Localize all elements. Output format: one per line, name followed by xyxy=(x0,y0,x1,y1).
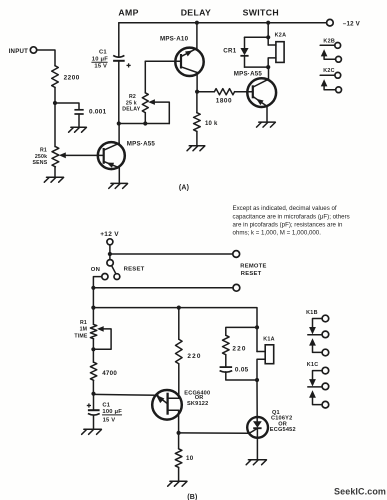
svg-text:MPS·A55: MPS·A55 xyxy=(234,70,263,77)
wire R1 to 4700 xyxy=(92,339,94,362)
resistor 220 snubber xyxy=(223,335,230,354)
SCR Q1 C106Y2 xyxy=(247,417,268,438)
resistor 4700 xyxy=(90,362,96,380)
wire 4700 to node xyxy=(92,380,94,393)
svg-text:1800: 1800 xyxy=(216,97,232,104)
potentiometer R2 25k DELAY xyxy=(144,61,146,93)
capacitor C1 10uF xyxy=(113,55,124,57)
svg-text:220: 220 xyxy=(232,346,246,353)
svg-text:TIME: TIME xyxy=(74,334,88,340)
svg-text:(A): (A) xyxy=(179,184,189,191)
node bus B left xyxy=(91,306,95,310)
wire A10 base xyxy=(145,60,181,62)
wire ON to bus xyxy=(93,277,101,288)
svg-text:4700: 4700 xyxy=(102,370,117,377)
node gate xyxy=(177,431,181,435)
svg-text:1M: 1M xyxy=(80,326,88,332)
ground below 0.001 xyxy=(69,127,87,132)
ground below 10 xyxy=(168,481,187,486)
wire R1 to ground xyxy=(54,167,56,177)
transistor MPS-A55 second (PNP) xyxy=(247,78,276,107)
wire 0.05 to node xyxy=(226,372,257,380)
svg-text:C1: C1 xyxy=(99,50,107,56)
wire R1 wiper to Q base xyxy=(65,154,104,156)
svg-text:ECG5452: ECG5452 xyxy=(270,427,296,433)
wire A55-2 collector up xyxy=(268,67,270,79)
wire node to capacitor 0.001 xyxy=(55,103,79,109)
wire emitter line xyxy=(94,393,159,396)
terminal INPUT xyxy=(30,47,36,53)
svg-text:SENS: SENS xyxy=(32,160,47,166)
capacitor C1 100uF xyxy=(93,394,95,410)
wire bus B xyxy=(93,308,257,328)
wire Q1 emitter to ground xyxy=(118,168,120,183)
resistor 2200 xyxy=(52,66,59,88)
wire CR1 bottom xyxy=(245,66,269,68)
node remote reset top xyxy=(108,252,112,256)
wire gate xyxy=(179,432,249,434)
wire -12V top rail xyxy=(119,22,327,24)
wire input to R 2200 xyxy=(37,50,55,66)
resistor 10 xyxy=(178,433,180,449)
wire node to R2 bottom xyxy=(119,123,170,125)
plus sign C1 100uF xyxy=(87,403,91,407)
wire rail to K2A node xyxy=(267,23,269,45)
svg-text:+12 V: +12 V xyxy=(100,231,119,238)
ground below second MPS-A55 xyxy=(257,122,276,127)
ground below C1 100uF xyxy=(82,429,102,434)
svg-text:Except as indicated, decimal v: Except as indicated, decimal values of xyxy=(233,205,337,212)
node snubber top xyxy=(255,325,259,329)
svg-text:2200: 2200 xyxy=(64,74,80,81)
wire cap to ground xyxy=(78,114,80,127)
terminal remote reset top xyxy=(233,251,240,258)
wire busA to busB xyxy=(92,288,94,308)
potentiometer R1 250k SENS xyxy=(52,147,59,167)
wire CR1 top xyxy=(245,36,269,38)
node emitter/C1 xyxy=(91,392,95,396)
node snubber bottom xyxy=(255,378,259,382)
wire SCR cathode xyxy=(256,428,258,459)
ground below SCR xyxy=(246,460,266,465)
unijunction transistor ECG6400 (UJT) xyxy=(152,390,182,420)
wire remote reset top xyxy=(110,253,233,255)
svg-text:K1A: K1A xyxy=(263,337,275,343)
wire A10 emitter to rail xyxy=(196,23,198,49)
transistor MPS-A10 (NPN) xyxy=(175,48,203,76)
node collector/1800/10k xyxy=(195,90,199,94)
relay coil K1A xyxy=(256,327,258,351)
svg-text:ON: ON xyxy=(91,267,100,273)
svg-text:MPS·A55: MPS·A55 xyxy=(127,141,156,148)
svg-text:K1C: K1C xyxy=(307,362,319,368)
wiper arrow R1 1M xyxy=(97,326,104,332)
switch RESET xyxy=(109,254,111,260)
potentiometer R1 1M TIME xyxy=(92,308,94,325)
node CR1 bottom xyxy=(266,65,270,69)
wire node to potentiometer R1 xyxy=(54,103,56,147)
transistor MPS-A55 first (PNP) xyxy=(98,142,125,169)
svg-text:SK9122: SK9122 xyxy=(187,401,208,407)
wire base-one down xyxy=(178,410,180,433)
svg-text:RESET: RESET xyxy=(124,266,145,272)
ground below 10k xyxy=(187,146,205,151)
diode CR1 xyxy=(244,37,246,48)
svg-text:–12 V: –12 V xyxy=(343,21,361,28)
capacitor 0.001 xyxy=(74,110,83,114)
svg-text:0.05: 0.05 xyxy=(235,366,249,373)
svg-text:220: 220 xyxy=(187,353,201,360)
wire C1 down to node xyxy=(118,61,120,124)
svg-text:REMOTE: REMOTE xyxy=(240,264,266,270)
SCR Q1 anode wire xyxy=(256,380,258,421)
node junction input divider xyxy=(53,101,57,105)
svg-text:10: 10 xyxy=(186,455,194,462)
capacitor 0.05 xyxy=(220,366,233,368)
svg-text:K2B: K2B xyxy=(323,38,335,44)
ground below first MPS-A55 xyxy=(109,183,128,188)
svg-text:R1: R1 xyxy=(80,320,87,326)
wire Q1 collector up xyxy=(118,124,120,144)
svg-text:RESET: RESET xyxy=(241,271,262,277)
wire A55-2 emitter down xyxy=(266,106,268,122)
wire C1 to ground xyxy=(93,415,95,429)
svg-text:(B): (B) xyxy=(187,494,197,500)
svg-text:INPUT: INPUT xyxy=(9,48,29,55)
svg-text:15 V: 15 V xyxy=(94,64,107,70)
svg-text:10 μF: 10 μF xyxy=(92,57,108,63)
wire A10 collector down xyxy=(196,73,198,92)
node R1/4700 xyxy=(91,347,95,351)
svg-text:SeekIC.com: SeekIC.com xyxy=(334,486,386,496)
terminal remote reset bottom xyxy=(233,284,240,291)
svg-text:DELAY: DELAY xyxy=(122,107,140,113)
svg-text:are in picofarads (pF); resist: are in picofarads (pF); resistances are … xyxy=(233,221,343,228)
resistor 10k xyxy=(196,92,198,113)
wire snubber branch xyxy=(226,327,257,335)
svg-text:R2: R2 xyxy=(129,94,136,100)
resistor 1800 xyxy=(197,91,214,93)
svg-text:10 k: 10 k xyxy=(205,121,218,127)
terminal -12 V xyxy=(327,19,334,26)
svg-text:DELAY: DELAY xyxy=(181,7,211,17)
capacitor C1 10uF lead from rail xyxy=(118,23,120,57)
wire +12V down xyxy=(109,245,111,254)
svg-text:MPS·A10: MPS·A10 xyxy=(160,36,189,43)
svg-text:K2C: K2C xyxy=(323,68,335,74)
wire 2200 to node xyxy=(54,87,56,103)
svg-text:K1B: K1B xyxy=(306,310,318,316)
svg-text:AMP: AMP xyxy=(118,7,138,17)
wire bus A xyxy=(93,287,233,289)
svg-text:K2A: K2A xyxy=(275,33,287,39)
svg-text:ohms; k = 1,000, M = 1,000,000: ohms; k = 1,000, M = 1,000,000. xyxy=(233,230,322,237)
relay coil K2A xyxy=(276,42,284,63)
node CR1 top branch xyxy=(266,35,270,39)
svg-text:15 V: 15 V xyxy=(103,418,116,424)
svg-text:C1: C1 xyxy=(102,403,110,409)
ground below R1 xyxy=(44,177,63,182)
node C1/collector/R2 xyxy=(117,121,121,125)
plus sign C1 xyxy=(127,63,131,67)
svg-text:CR1: CR1 xyxy=(223,48,237,55)
switch ON xyxy=(102,274,108,280)
svg-text:capacitance are in microfarads: capacitance are in microfarads (μF); oth… xyxy=(233,213,350,220)
wiper arrow R1 xyxy=(59,152,66,158)
svg-text:0.001: 0.001 xyxy=(89,108,107,115)
terminal +12 V xyxy=(107,239,113,245)
wiper arrow R2 xyxy=(148,99,155,105)
resistor 220 base-two xyxy=(178,308,180,340)
wire 220 to 0.05 xyxy=(225,355,227,367)
node 220 branch xyxy=(177,306,181,310)
svg-text:100 μF: 100 μF xyxy=(102,409,122,415)
node bus A left xyxy=(91,286,95,290)
svg-text:25 k: 25 k xyxy=(126,100,137,106)
svg-text:R1: R1 xyxy=(40,147,47,153)
svg-text:SWITCH: SWITCH xyxy=(243,7,279,17)
